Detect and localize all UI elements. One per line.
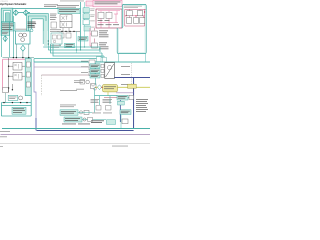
svg-text:Hyd System Schematic: Hyd System Schematic (0, 3, 27, 6)
